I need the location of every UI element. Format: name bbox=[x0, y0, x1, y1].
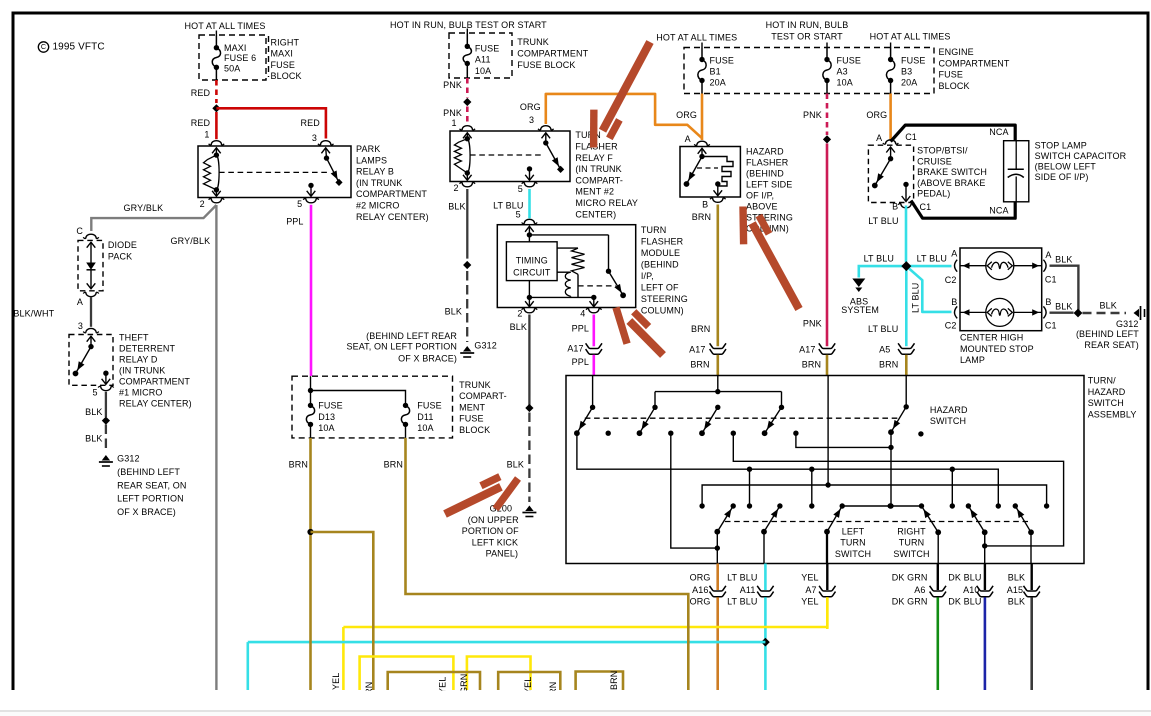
svg-text:CENTER HIGH: CENTER HIGH bbox=[960, 332, 1023, 342]
svg-text:(IN TRUNK: (IN TRUNK bbox=[356, 178, 402, 188]
svg-text:THEFT: THEFT bbox=[119, 332, 149, 342]
svg-text:HOT AT ALL TIMES: HOT AT ALL TIMES bbox=[185, 21, 266, 31]
svg-text:SWITCH: SWITCH bbox=[893, 549, 929, 559]
svg-text:LEFT PORTION: LEFT PORTION bbox=[117, 494, 184, 504]
svg-text:B: B bbox=[1045, 297, 1051, 307]
svg-text:FUSE: FUSE bbox=[710, 55, 734, 65]
svg-text:YEL: YEL bbox=[801, 597, 818, 607]
svg-text:ASSEMBLY: ASSEMBLY bbox=[1088, 409, 1137, 419]
svg-text:10A: 10A bbox=[475, 66, 491, 76]
svg-text:A17: A17 bbox=[567, 344, 583, 354]
svg-text:4: 4 bbox=[580, 309, 585, 319]
svg-text:5: 5 bbox=[518, 184, 523, 194]
svg-text:COMPARTMENT: COMPARTMENT bbox=[517, 49, 588, 59]
svg-text:TURN: TURN bbox=[899, 538, 924, 548]
svg-text:A17: A17 bbox=[689, 345, 705, 355]
svg-text:LT BLU: LT BLU bbox=[917, 253, 947, 263]
svg-text:SYSTEM: SYSTEM bbox=[841, 305, 879, 315]
svg-text:MAXI: MAXI bbox=[271, 49, 293, 59]
svg-text:FUSE: FUSE bbox=[837, 55, 861, 65]
svg-text:COLUMN): COLUMN) bbox=[641, 305, 684, 315]
svg-text:(IN TRUNK: (IN TRUNK bbox=[575, 164, 621, 174]
svg-text:CENTER): CENTER) bbox=[575, 209, 616, 219]
svg-text:A: A bbox=[685, 134, 691, 144]
svg-text:BLK: BLK bbox=[85, 433, 102, 443]
svg-text:I/P,: I/P, bbox=[641, 271, 654, 281]
svg-text:5: 5 bbox=[92, 387, 97, 397]
svg-text:YEL: YEL bbox=[801, 573, 818, 583]
svg-text:C1: C1 bbox=[1045, 274, 1057, 284]
svg-text:REAR SEAT, ON: REAR SEAT, ON bbox=[117, 480, 186, 490]
svg-text:20A: 20A bbox=[710, 77, 726, 87]
svg-text:HAZARD: HAZARD bbox=[930, 405, 968, 415]
svg-text:(BELOW LEFT: (BELOW LEFT bbox=[1035, 161, 1097, 171]
svg-text:A11: A11 bbox=[475, 55, 491, 65]
svg-text:20A: 20A bbox=[901, 77, 917, 87]
svg-text:OF X BRACE): OF X BRACE) bbox=[398, 353, 457, 363]
svg-text:DK GRN: DK GRN bbox=[892, 573, 928, 583]
svg-text:#2 MICRO: #2 MICRO bbox=[356, 200, 399, 210]
svg-text:BLK: BLK bbox=[1055, 302, 1072, 312]
svg-text:MENT #2: MENT #2 bbox=[575, 187, 614, 197]
svg-text:PNK: PNK bbox=[443, 80, 462, 90]
svg-text:A: A bbox=[876, 133, 882, 143]
svg-text:A11: A11 bbox=[740, 585, 756, 595]
svg-text:SWITCH CAPACITOR: SWITCH CAPACITOR bbox=[1035, 151, 1127, 161]
svg-text:C1: C1 bbox=[1045, 321, 1057, 331]
svg-text:PPL: PPL bbox=[572, 357, 589, 367]
svg-text:LAMP: LAMP bbox=[960, 355, 985, 365]
svg-text:HOT IN RUN, BULB TEST OR START: HOT IN RUN, BULB TEST OR START bbox=[390, 20, 547, 30]
svg-text:BRN: BRN bbox=[289, 459, 308, 469]
svg-text:BRN: BRN bbox=[691, 324, 710, 334]
svg-text:ORG: ORG bbox=[690, 597, 711, 607]
svg-text:2: 2 bbox=[517, 309, 522, 319]
svg-text:FLASHER: FLASHER bbox=[746, 157, 789, 167]
svg-text:PPL: PPL bbox=[286, 216, 303, 226]
svg-text:TURN/: TURN/ bbox=[1088, 375, 1116, 385]
svg-text:BLK: BLK bbox=[1008, 573, 1025, 583]
svg-text:GRY/BLK: GRY/BLK bbox=[124, 203, 164, 213]
svg-text:STOP/BTSI/: STOP/BTSI/ bbox=[917, 146, 968, 156]
svg-text:STOP LAMP: STOP LAMP bbox=[1035, 140, 1087, 150]
svg-text:BLK: BLK bbox=[85, 407, 102, 417]
svg-text:ORG: ORG bbox=[866, 110, 887, 120]
svg-text:FUSE: FUSE bbox=[417, 401, 441, 411]
svg-text:TURN: TURN bbox=[840, 538, 865, 548]
svg-text:YEL: YEL bbox=[331, 673, 341, 690]
svg-text:DETERRENT: DETERRENT bbox=[119, 343, 175, 353]
svg-text:LT BLU: LT BLU bbox=[911, 283, 921, 313]
svg-text:3: 3 bbox=[312, 133, 317, 143]
svg-text:BRN: BRN bbox=[690, 359, 709, 369]
svg-text:BRN: BRN bbox=[384, 459, 403, 469]
svg-text:PEDAL): PEDAL) bbox=[917, 188, 950, 198]
svg-text:PANEL): PANEL) bbox=[486, 548, 519, 558]
svg-text:CRUISE: CRUISE bbox=[917, 156, 952, 166]
svg-text:STEERING: STEERING bbox=[746, 212, 793, 222]
svg-text:RIGHT: RIGHT bbox=[271, 37, 300, 47]
svg-text:(IN TRUNK: (IN TRUNK bbox=[119, 365, 165, 375]
svg-text:FUSE BLOCK: FUSE BLOCK bbox=[517, 60, 575, 70]
svg-text:FUSE 6: FUSE 6 bbox=[224, 53, 256, 63]
svg-text:COMPARTMENT: COMPARTMENT bbox=[939, 58, 1010, 68]
svg-text:A10: A10 bbox=[963, 585, 979, 595]
svg-text:SWITCH: SWITCH bbox=[930, 416, 966, 426]
svg-text:10A: 10A bbox=[417, 423, 433, 433]
svg-text:D13: D13 bbox=[318, 412, 335, 422]
svg-text:MENT: MENT bbox=[459, 402, 485, 412]
svg-text:NCA: NCA bbox=[989, 127, 1008, 137]
svg-text:BRN: BRN bbox=[692, 212, 711, 222]
svg-text:REAR SEAT): REAR SEAT) bbox=[1084, 340, 1139, 350]
svg-text:RELAY B: RELAY B bbox=[356, 167, 394, 177]
svg-text:BRN: BRN bbox=[802, 359, 821, 369]
svg-text:NCA: NCA bbox=[989, 205, 1008, 215]
svg-text:LT BLU: LT BLU bbox=[868, 216, 898, 226]
svg-text:C2: C2 bbox=[945, 321, 957, 331]
svg-text:FLASHER: FLASHER bbox=[641, 236, 684, 246]
svg-text:B1: B1 bbox=[710, 66, 721, 76]
svg-text:PARK: PARK bbox=[356, 144, 380, 154]
svg-text:LEFT SIDE: LEFT SIDE bbox=[746, 179, 792, 189]
svg-text:RED: RED bbox=[301, 118, 321, 128]
svg-text:A16: A16 bbox=[692, 585, 708, 595]
svg-text:HAZARD: HAZARD bbox=[1088, 387, 1126, 397]
svg-text:5: 5 bbox=[297, 199, 302, 209]
svg-text:1: 1 bbox=[204, 129, 209, 139]
svg-text:C: C bbox=[41, 42, 46, 51]
svg-text:MAXI: MAXI bbox=[224, 43, 246, 53]
svg-text:HOT IN RUN, BULB: HOT IN RUN, BULB bbox=[766, 20, 849, 30]
svg-text:A: A bbox=[1045, 250, 1051, 260]
svg-text:PNK: PNK bbox=[803, 110, 822, 120]
svg-text:ABOVE: ABOVE bbox=[746, 201, 778, 211]
svg-text:SWITCH: SWITCH bbox=[1088, 398, 1124, 408]
svg-text:HOT AT ALL TIMES: HOT AT ALL TIMES bbox=[870, 31, 951, 41]
svg-text:BLK: BLK bbox=[1100, 300, 1117, 310]
svg-text:BLK: BLK bbox=[1055, 255, 1072, 265]
svg-text:BLOCK: BLOCK bbox=[271, 71, 302, 81]
svg-text:SWITCH: SWITCH bbox=[835, 549, 871, 559]
svg-text:MOUNTED STOP: MOUNTED STOP bbox=[960, 344, 1034, 354]
svg-text:LT BLU: LT BLU bbox=[727, 573, 757, 583]
svg-text:LEFT KICK: LEFT KICK bbox=[472, 537, 518, 547]
svg-text:HOT AT ALL TIMES: HOT AT ALL TIMES bbox=[656, 33, 737, 43]
svg-text:COMPARTMENT: COMPARTMENT bbox=[119, 376, 190, 386]
svg-text:LEFT: LEFT bbox=[842, 526, 865, 536]
svg-text:PNK: PNK bbox=[803, 318, 822, 328]
svg-text:A6: A6 bbox=[914, 585, 925, 595]
svg-text:LEFT OF: LEFT OF bbox=[641, 282, 679, 292]
svg-text:BLK: BLK bbox=[448, 201, 465, 211]
svg-text:2: 2 bbox=[200, 199, 205, 209]
svg-text:COMPARTMENT: COMPARTMENT bbox=[356, 189, 427, 199]
svg-text:BRAKE SWITCH: BRAKE SWITCH bbox=[917, 167, 987, 177]
svg-text:ENGINE: ENGINE bbox=[939, 47, 974, 57]
svg-text:FUSE: FUSE bbox=[318, 401, 342, 411]
svg-text:RED: RED bbox=[191, 88, 211, 98]
svg-text:BLK/WHT: BLK/WHT bbox=[13, 308, 54, 318]
svg-text:RELAY D: RELAY D bbox=[119, 354, 158, 364]
svg-text:HAZARD: HAZARD bbox=[746, 146, 784, 156]
svg-text:DIODE: DIODE bbox=[108, 240, 137, 250]
svg-text:PACK: PACK bbox=[108, 251, 132, 261]
svg-text:CIRCUIT: CIRCUIT bbox=[513, 267, 551, 277]
svg-text:ORG: ORG bbox=[676, 110, 697, 120]
svg-text:(BEHIND LEFT: (BEHIND LEFT bbox=[117, 467, 180, 477]
svg-text:FUSE: FUSE bbox=[459, 414, 483, 424]
svg-text:SEAT, ON LEFT PORTION: SEAT, ON LEFT PORTION bbox=[346, 341, 457, 351]
svg-text:ORG: ORG bbox=[690, 573, 711, 583]
svg-text:A15: A15 bbox=[1007, 585, 1023, 595]
svg-text:D11: D11 bbox=[417, 412, 433, 422]
svg-text:TRUNK: TRUNK bbox=[459, 380, 491, 390]
svg-text:FUSE: FUSE bbox=[939, 70, 963, 80]
svg-text:DK BLU: DK BLU bbox=[948, 573, 981, 583]
svg-text:RELAY CENTER): RELAY CENTER) bbox=[119, 398, 192, 408]
svg-text:A17: A17 bbox=[799, 345, 815, 355]
svg-text:TRUNK: TRUNK bbox=[517, 37, 549, 47]
svg-text:LAMPS: LAMPS bbox=[356, 155, 387, 165]
svg-text:10A: 10A bbox=[837, 77, 853, 87]
svg-text:(BEHIND LEFT REAR: (BEHIND LEFT REAR bbox=[366, 331, 457, 341]
svg-text:B3: B3 bbox=[901, 66, 912, 76]
svg-text:LT BLU: LT BLU bbox=[868, 324, 898, 334]
svg-text:BLK: BLK bbox=[1008, 597, 1025, 607]
svg-text:3: 3 bbox=[78, 321, 83, 331]
svg-text:ORG: ORG bbox=[520, 102, 541, 112]
svg-text:DK BLU: DK BLU bbox=[948, 597, 981, 607]
svg-text:TURN: TURN bbox=[641, 225, 666, 235]
svg-text:50A: 50A bbox=[224, 63, 240, 73]
svg-text:B: B bbox=[702, 199, 708, 209]
svg-text:5: 5 bbox=[516, 210, 521, 220]
svg-text:COMPART-: COMPART- bbox=[459, 391, 507, 401]
svg-text:A: A bbox=[77, 297, 83, 307]
svg-text:(BEHIND LEFT: (BEHIND LEFT bbox=[1076, 329, 1139, 339]
svg-text:BRN: BRN bbox=[609, 671, 619, 690]
svg-text:FUSE: FUSE bbox=[271, 60, 295, 70]
svg-text:BLK: BLK bbox=[507, 459, 524, 469]
svg-text:G312: G312 bbox=[117, 453, 140, 463]
svg-text:(ON UPPER: (ON UPPER bbox=[468, 515, 519, 525]
svg-text:PNK: PNK bbox=[443, 108, 462, 118]
svg-text:1995 VFTC: 1995 VFTC bbox=[53, 41, 105, 52]
svg-text:10A: 10A bbox=[318, 423, 334, 433]
svg-text:(ABOVE BRAKE: (ABOVE BRAKE bbox=[917, 178, 985, 188]
svg-text:LT BLU: LT BLU bbox=[727, 597, 757, 607]
svg-text:BLK: BLK bbox=[445, 307, 462, 317]
svg-text:B: B bbox=[892, 201, 898, 211]
svg-text:FUSE: FUSE bbox=[475, 43, 499, 53]
svg-text:RED: RED bbox=[191, 118, 211, 128]
svg-text:COMPART-: COMPART- bbox=[575, 175, 623, 185]
svg-text:MODULE: MODULE bbox=[641, 248, 680, 258]
svg-text:C1: C1 bbox=[920, 202, 932, 212]
svg-text:SIDE OF I/P): SIDE OF I/P) bbox=[1035, 172, 1089, 182]
svg-text:RELAY F: RELAY F bbox=[575, 153, 613, 163]
svg-text:2: 2 bbox=[454, 183, 459, 193]
svg-text:BLOCK: BLOCK bbox=[939, 81, 970, 91]
svg-text:BRN: BRN bbox=[879, 359, 898, 369]
svg-text:TIMING: TIMING bbox=[516, 255, 548, 265]
svg-text:(BEHIND: (BEHIND bbox=[746, 168, 784, 178]
svg-text:PORTION OF: PORTION OF bbox=[462, 526, 519, 536]
svg-text:OF X BRACE): OF X BRACE) bbox=[117, 507, 176, 517]
svg-text:DK GRN: DK GRN bbox=[892, 597, 928, 607]
svg-text:GRY/BLK: GRY/BLK bbox=[171, 236, 211, 246]
svg-text:C1: C1 bbox=[905, 132, 917, 142]
svg-text:PPL: PPL bbox=[572, 323, 589, 333]
svg-text:A: A bbox=[951, 249, 957, 259]
svg-text:#1 MICRO: #1 MICRO bbox=[119, 387, 162, 397]
svg-text:A5: A5 bbox=[879, 345, 890, 355]
svg-text:C: C bbox=[76, 226, 83, 236]
svg-text:RELAY CENTER): RELAY CENTER) bbox=[356, 212, 429, 222]
svg-text:3: 3 bbox=[529, 115, 534, 125]
svg-text:FUSE: FUSE bbox=[901, 55, 925, 65]
svg-text:BLOCK: BLOCK bbox=[459, 425, 490, 435]
svg-text:1: 1 bbox=[452, 118, 457, 128]
svg-text:A7: A7 bbox=[805, 585, 816, 595]
svg-text:G312: G312 bbox=[474, 341, 497, 351]
svg-text:STEERING: STEERING bbox=[641, 294, 688, 304]
svg-text:(BEHIND: (BEHIND bbox=[641, 259, 679, 269]
svg-text:A3: A3 bbox=[837, 66, 848, 76]
svg-text:C2: C2 bbox=[945, 275, 957, 285]
svg-text:BLK: BLK bbox=[510, 322, 527, 332]
svg-text:RIGHT: RIGHT bbox=[897, 526, 926, 536]
svg-text:OF I/P,: OF I/P, bbox=[746, 190, 774, 200]
svg-text:LT BLU: LT BLU bbox=[864, 253, 894, 263]
svg-text:G312: G312 bbox=[1116, 319, 1139, 329]
svg-text:MICRO RELAY: MICRO RELAY bbox=[575, 198, 638, 208]
svg-text:B: B bbox=[951, 297, 957, 307]
svg-text:TEST OR START: TEST OR START bbox=[771, 31, 843, 41]
